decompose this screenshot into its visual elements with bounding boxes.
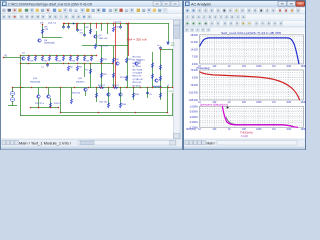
svg-text:Phase(deg): Phase(deg): [197, 66, 211, 70]
svg-text:C14 47u: C14 47u: [114, 22, 123, 24]
svg-text:10K: 10K: [242, 102, 247, 104]
svg-text:Q2 (B)+4C: Q2 (B)+4C: [133, 79, 144, 81]
svg-text:100K: 100K: [256, 102, 262, 104]
svg-text:R20 100: R20 100: [99, 102, 108, 104]
svg-text:100M: 100M: [301, 129, 306, 131]
svg-text:R13 9.1: R13 9.1: [54, 103, 62, 105]
svg-text:100K: 100K: [256, 66, 262, 68]
svg-text:10M: 10M: [286, 66, 291, 68]
svg-text:R27 616: R27 616: [120, 77, 129, 79]
svg-text:R15 616: R15 616: [72, 93, 81, 95]
svg-text:1K: 1K: [228, 129, 231, 131]
svg-text:R12 TP-4: R12 TP-4: [35, 103, 45, 105]
svg-text:B1 2N5401C: B1 2N5401C: [133, 60, 146, 62]
svg-text:100M: 100M: [301, 102, 306, 104]
svg-text:Rb4 = 355 mA: Rb4 = 355 mA: [127, 37, 147, 41]
svg-text:1K: 1K: [228, 102, 231, 104]
svg-text:2N5401C: 2N5401C: [76, 81, 85, 83]
svg-text:R14 1k0: R14 1k0: [133, 57, 142, 59]
svg-text:C9 100pF: C9 100pF: [133, 73, 143, 75]
svg-text:-152.000: -152.000: [188, 92, 198, 95]
svg-text:R16 220: R16 220: [133, 63, 142, 65]
svg-text:R1.2 22k: R1.2 22k: [100, 46, 109, 48]
svg-text:C:\WC2.2\DATA\Palco\Self-type-: C:\WC2.2\DATA\Palco\Self-type-d\Self_mod…: [8, 3, 92, 7]
svg-text:5551+4C: 5551+4C: [99, 38, 108, 40]
svg-text:0.800%: 0.800%: [190, 111, 199, 114]
svg-text:1M: 1M: [272, 66, 275, 68]
svg-text:0.000: 0.000: [192, 77, 199, 80]
svg-text:2N5961(B): 2N5961(B): [44, 42, 55, 44]
svg-text:1M: 1M: [272, 102, 275, 104]
svg-text:R17 616B: R17 616B: [133, 69, 143, 71]
svg-text:10K: 10K: [242, 66, 247, 68]
svg-text:0.400%: 0.400%: [190, 121, 199, 124]
svg-text:R18 4.7k: R18 4.7k: [133, 76, 143, 78]
svg-text:76.000: 76.000: [190, 69, 198, 72]
svg-text:Q7 22k4: Q7 22k4: [133, 66, 142, 68]
svg-text:56V: 56V: [171, 45, 175, 47]
svg-text:2N5551(B): 2N5551(B): [30, 81, 40, 83]
svg-text:100K: 100K: [256, 129, 262, 131]
svg-text:R19 0.51: R19 0.51: [133, 82, 143, 84]
svg-text:Main /: Main /: [207, 142, 216, 146]
svg-text:10M: 10M: [286, 102, 291, 104]
svg-text:MHz(mv): MHz(mv): [186, 128, 196, 131]
svg-text:7.000: 7.000: [192, 56, 199, 59]
svg-text:F (Hz): F (Hz): [241, 134, 248, 138]
svg-text:10M: 10M: [286, 129, 291, 131]
svg-text:THD(1kHz): THD(1kHz): [240, 131, 253, 135]
svg-text:28.000: 28.000: [190, 34, 198, 37]
svg-text:0.600%: 0.600%: [190, 116, 199, 119]
svg-text:1M: 1M: [272, 129, 275, 131]
svg-text:14.000: 14.000: [190, 48, 198, 51]
svg-text:OUT: OUT: [169, 91, 174, 93]
svg-text:1K: 1K: [228, 66, 231, 68]
svg-text:(2x4.7u): (2x4.7u): [48, 23, 56, 25]
svg-text:100M: 100M: [301, 66, 306, 68]
svg-text:Self_mod-SCH-(2)Wb-TI-43 F-dB: Self_mod-SCH-(2)Wb-TI-43 F-dB 355: [221, 31, 282, 35]
svg-text:Cs: Cs: [157, 45, 160, 47]
svg-text:-228.000: -228.000: [188, 99, 198, 102]
svg-text:21.000: 21.000: [190, 41, 198, 44]
svg-text:AC Analysis: AC Analysis: [191, 3, 211, 7]
svg-text:1.000%: 1.000%: [190, 105, 199, 108]
svg-text:IN: IN: [5, 56, 8, 58]
svg-text:Main / Text_1 Module_1 Info /: Main / Text_1 Module_1 Info /: [19, 142, 71, 146]
svg-text:-76.000: -76.000: [190, 84, 199, 87]
